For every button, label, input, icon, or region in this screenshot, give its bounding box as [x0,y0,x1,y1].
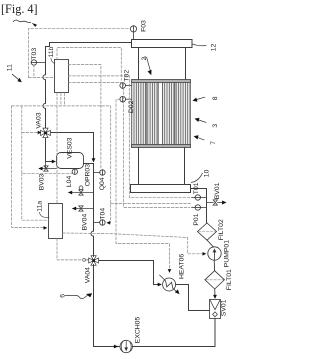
svg-text:11: 11 [6,64,13,71]
wire VES03 outlet [84,163,94,165]
wire 11b bottom to 11a [56,93,58,203]
node 7 arrow [196,137,204,140]
svg-text:VES03: VES03 [66,137,73,158]
pump PUMP01 [208,247,221,260]
node 11 arrow [12,74,19,80]
svg-text:BV01: BV01 [214,182,221,199]
sensor T02 [120,83,126,89]
valve BV01 [207,202,214,204]
svg-text:11b: 11b [48,46,55,57]
sensor Q04 [94,172,100,174]
squiggle leader top-left [13,20,30,23]
valve SV01 [210,300,221,319]
wire main pipe below VA04 to bottom [94,265,120,347]
wire left trunk to 11a [12,106,45,227]
sensor F03 [130,26,136,32]
wire 11b right to P01 [68,83,189,208]
svg-text:PUMP01: PUMP01 [223,240,230,267]
svg-text:7: 7 [210,141,217,145]
svg-text:8: 8 [212,96,219,100]
node 12 leader [192,44,206,46]
svg-text:P01: P01 [193,213,200,225]
wire main pipe down with hop [91,164,94,257]
node 3 arrow [197,120,206,123]
svg-text:BV03: BV03 [39,173,46,190]
wire trunk 11b bottom to T04 and across [12,106,111,223]
wire 11a right to PUMP01 [63,233,203,254]
valve VA04 [89,256,99,266]
wire header outlet down pump column [191,189,207,224]
wire VA03 branch to main pipe [51,133,94,159]
condenser tubes top [139,48,186,80]
node 10 leader [191,173,202,182]
svg-text:T01: T01 [193,182,200,194]
svg-text:HEAT06: HEAT06 [179,254,186,279]
wire left trunk 2 into 11a [22,173,49,220]
filter FILT02 [198,223,217,240]
arrow into PUMP01 [203,252,207,256]
wire pipe below VA03 to vessel [46,138,54,161]
wire FILT02 to pump [207,240,213,247]
heat exchanger EXCH05 [114,345,118,349]
svg-text:T04: T04 [100,208,107,220]
wire D02 to HEAT06 [116,99,170,270]
node 8 arrow [195,97,205,100]
svg-text:OPR03: OPR03 [85,164,92,187]
actuator circle VA04 [83,259,86,262]
svg-text:3: 3 [212,124,219,128]
sensor T01 [192,197,207,199]
wire T03 drop [33,65,35,78]
svg-text:VA04: VA04 [85,267,92,283]
svg-text:10: 10 [204,169,211,177]
svg-text:F03: F03 [140,20,147,32]
sensor T03 [31,60,36,65]
wire pump to FILT01 [213,260,215,271]
svg-text:SV01: SV01 [221,299,228,316]
valve BV04 [74,208,93,210]
arrow into HEAT06 top [168,269,172,273]
wire 11a bottom to VA04 [57,238,81,260]
valve VA03 [41,128,51,138]
condenser top header 12 [132,40,193,48]
svg-text:VA03: VA03 [35,112,42,128]
node 11a leader [39,212,49,217]
vessel VES03 [57,153,84,169]
sensor D02 [120,96,126,102]
valve OPR03 relief [70,192,93,194]
wire left pipe with hops [43,47,46,128]
wire HEAT06 branch from VA04 [99,261,160,285]
svg-text:EXCH05: EXCH05 [135,317,142,344]
svg-text:Q04: Q04 [99,177,106,190]
wire 11b top to T02 [57,48,121,81]
arrow to T04 [106,221,110,225]
wire FILT01 to SV01 with arrow [214,289,216,296]
dashed control wires [12,28,203,270]
svg-text:BV04: BV04 [82,214,89,231]
svg-text:[Fig. 4]: [Fig. 4] [1,2,38,16]
controller 11a [49,204,63,239]
wire 11b right to T01 [68,76,189,198]
heater HEAT06 [163,278,176,291]
wire VA03 control (dashed) [22,132,38,134]
svg-text:FILT01: FILT01 [226,269,233,290]
sensor P01 [192,207,207,209]
node 6 leader arrow [65,295,87,298]
controller 11b [55,60,69,93]
filter FILT01 [205,271,225,289]
svg-text:L04: L04 [66,176,73,188]
condenser bottom header 10 [131,185,191,193]
sensor L04 [74,168,76,171]
svg-text:12: 12 [210,43,217,51]
condenser tubes bottom [139,148,185,185]
wire HEAT06 outlet to SV01 [176,285,210,311]
condenser core block [132,80,191,148]
wire 11b bottom stubs [60,93,62,106]
svg-text:T03: T03 [31,48,38,60]
wire steam line to header 12 [46,43,132,47]
svg-text:11a: 11a [37,201,44,212]
wire to 11b left [29,77,55,79]
arrow into 11a [44,226,48,230]
wire trunk branch [111,202,191,204]
sensor T04 [94,222,100,224]
svg-text:FILT02: FILT02 [218,219,225,240]
wire F03 signal [29,28,131,77]
wire L04 signal [22,106,72,173]
valve BV03 [41,162,57,169]
node 11b leader [51,58,54,63]
node 2 leader arrow [144,57,151,70]
wire EXCH05 outlet to SV01 [132,319,215,347]
